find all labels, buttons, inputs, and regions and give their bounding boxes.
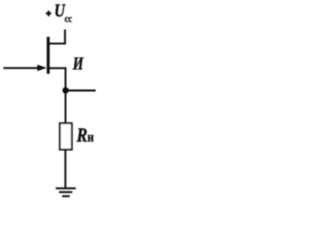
label Rн: [76, 124, 94, 146]
wire node to resistor: [65, 90, 67, 123]
wire source lead: [48, 68, 65, 91]
transistor gate arrowhead: [37, 65, 46, 72]
svg-text:R: R: [76, 124, 88, 146]
svg-text:н: н: [87, 130, 94, 145]
wire drain stub to +Ucc: [48, 30, 65, 44]
ground: [56, 188, 76, 196]
wire resistor to ground: [64, 150, 66, 189]
transistor channel: [47, 37, 50, 74]
resistor Rн body: [60, 123, 72, 149]
node (junction dot): [62, 87, 68, 93]
wire output: [66, 90, 96, 92]
svg-text:сс: сс: [65, 13, 72, 24]
wire gate lead: [3, 67, 39, 69]
svg-text:И: И: [72, 55, 84, 74]
label +Ucc (supply): [46, 0, 72, 24]
